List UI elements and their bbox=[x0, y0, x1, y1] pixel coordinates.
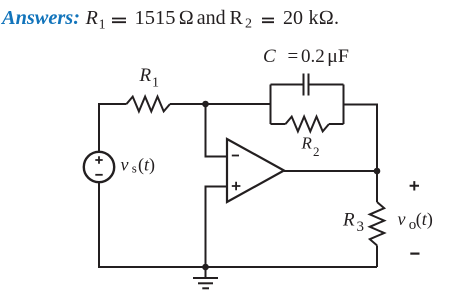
node A junction dot bbox=[202, 101, 209, 108]
feedback box right vertical wire bbox=[343, 85, 345, 125]
svg-text:R: R bbox=[342, 210, 355, 231]
svg-text:3: 3 bbox=[357, 219, 365, 235]
voltage source Vs circle bbox=[84, 152, 114, 182]
ground junction dot bbox=[202, 264, 209, 271]
resistor R2 right lead bbox=[329, 123, 344, 125]
svg-text:1515: 1515 bbox=[135, 7, 176, 29]
svg-text:(t): (t) bbox=[138, 155, 155, 176]
svg-text:Answers:: Answers: bbox=[0, 7, 80, 29]
capacitor C left lead bbox=[271, 84, 303, 86]
svg-text:v: v bbox=[398, 209, 406, 229]
resistor R3 bbox=[370, 202, 384, 245]
svg-text:s: s bbox=[132, 160, 137, 175]
resistor R2 left lead bbox=[271, 123, 286, 125]
capacitor C right lead bbox=[310, 84, 344, 86]
svg-text:2: 2 bbox=[245, 17, 252, 32]
svg-text:1: 1 bbox=[99, 17, 106, 32]
op-amp non-inverting input plus sign bbox=[232, 182, 241, 191]
wire top-left corner from source to R1 bbox=[99, 104, 127, 152]
resistor label R2 bbox=[301, 134, 320, 159]
wire non-inverting input down to ground rail bbox=[206, 187, 228, 268]
svg-text:Ω: Ω bbox=[179, 7, 194, 29]
resistor label R1 bbox=[139, 65, 160, 91]
source label vs(t) bbox=[121, 155, 156, 176]
answer text line bbox=[0, 7, 339, 32]
wire node A down to inverting input bbox=[206, 104, 228, 157]
svg-text:R: R bbox=[230, 7, 244, 29]
wire R3 to bottom rail bbox=[376, 245, 378, 267]
node B junction dot bbox=[374, 168, 381, 175]
svg-text:v: v bbox=[121, 155, 129, 175]
svg-text:0.2: 0.2 bbox=[301, 46, 325, 67]
svg-text:(t): (t) bbox=[416, 209, 433, 230]
op-amp inverting input minus sign bbox=[232, 155, 239, 157]
feedback box left vertical wire bbox=[270, 85, 272, 125]
svg-text:R: R bbox=[139, 65, 152, 86]
capacitor C plates bbox=[304, 74, 309, 96]
resistor R2 bbox=[286, 117, 330, 132]
svg-text:20: 20 bbox=[283, 7, 303, 29]
svg-text:R: R bbox=[85, 7, 98, 29]
svg-text:and: and bbox=[197, 7, 226, 29]
output minus polarity mark bbox=[410, 253, 419, 255]
wire source to bottom rail and bottom rail bbox=[99, 182, 377, 267]
wire node B down to R3 bbox=[376, 171, 378, 202]
wire R1 to feedback box bbox=[170, 103, 271, 105]
svg-text:kΩ.: kΩ. bbox=[309, 7, 340, 29]
svg-text:=: = bbox=[288, 46, 299, 67]
wire feedback box to output node bbox=[344, 105, 378, 172]
resistor label R3 bbox=[342, 210, 364, 236]
output label vo(t) bbox=[398, 209, 433, 233]
voltage source plus sign bbox=[95, 156, 102, 163]
svg-text:2: 2 bbox=[313, 144, 320, 159]
wire op-amp output to node B bbox=[284, 170, 377, 172]
op-amp U1 bbox=[227, 139, 284, 202]
output plus polarity mark bbox=[410, 181, 419, 190]
svg-text:R: R bbox=[301, 134, 313, 153]
svg-text:1: 1 bbox=[152, 76, 159, 91]
capacitor value label C = 0.2 uF bbox=[263, 46, 349, 67]
ground bbox=[193, 267, 218, 288]
svg-text:C: C bbox=[263, 46, 276, 67]
svg-text:μF: μF bbox=[327, 46, 349, 67]
voltage source minus sign bbox=[95, 174, 102, 176]
resistor R1 bbox=[127, 97, 171, 112]
